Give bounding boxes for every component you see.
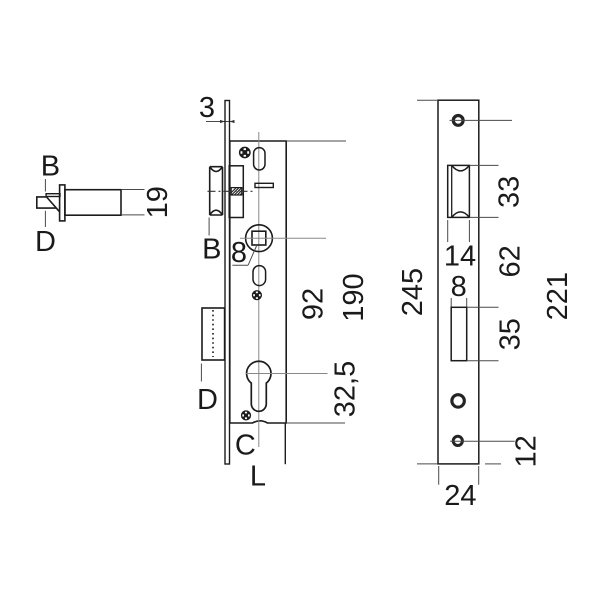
- dimension 24: [444, 480, 476, 512]
- svg-text:B: B: [41, 151, 60, 183]
- extension line under case right edge for L: [284, 423, 286, 464]
- screw B: [252, 291, 261, 300]
- svg-text:33: 33: [494, 176, 526, 208]
- lock case with bottom notch: [230, 141, 286, 423]
- latch head spool (protruding): [210, 167, 223, 215]
- oval slot B: [253, 266, 266, 286]
- cylinder hole in plate: [451, 307, 467, 360]
- dash-dot center line of latch: [208, 190, 256, 192]
- dimension 32,5: [330, 361, 362, 417]
- dimension 33: [494, 176, 526, 208]
- leader line D to latch nose: [44, 211, 46, 227]
- strike plate outline: [438, 100, 479, 464]
- dimension 190: [338, 273, 370, 321]
- case top extension line (190): [286, 140, 346, 142]
- oval slot A: [254, 148, 265, 170]
- hatched latch shaft: [231, 188, 242, 195]
- svg-text:12: 12: [510, 435, 542, 467]
- svg-text:8: 8: [451, 271, 467, 303]
- plate bottom-left extension (245): [417, 463, 437, 465]
- cylinder hole extension lines right (35): [467, 307, 499, 360]
- top screw reference line: [450, 119, 513, 121]
- latch body cylinder: [65, 190, 121, 216]
- leader line B to latch nose: [44, 179, 46, 192]
- label B (left detail): [41, 151, 60, 183]
- label L: [250, 461, 266, 493]
- faceplate side view: [225, 101, 230, 465]
- spindle horizontal reference line: [240, 237, 326, 239]
- dimension 92: [298, 288, 330, 320]
- latch nose (beveled bolt): [37, 197, 60, 212]
- dimension 245: [397, 268, 429, 316]
- bottom-right extension (12): [485, 463, 501, 465]
- svg-text:C: C: [235, 429, 256, 461]
- latch inner body in case: [229, 166, 243, 218]
- bottom screw reference line: [450, 440, 515, 442]
- latch opening in plate: [448, 165, 470, 217]
- dimension 19: [142, 186, 174, 218]
- plate top-left extension (245): [417, 99, 438, 101]
- svg-text:221: 221: [542, 272, 574, 320]
- svg-text:24: 24: [444, 480, 476, 512]
- dimension 14: [444, 241, 476, 273]
- leader line D (deadbolt): [200, 364, 202, 382]
- dimension 35: [495, 318, 527, 350]
- svg-text:D: D: [197, 384, 218, 416]
- leader line B (case latch): [208, 218, 210, 236]
- bottom edge extension line: [286, 422, 345, 424]
- svg-text:35: 35: [495, 318, 527, 350]
- svg-text:245: 245: [397, 268, 429, 316]
- svg-text:190: 190: [338, 273, 370, 321]
- slot in case: [255, 183, 273, 187]
- label B (case latch): [202, 233, 221, 265]
- label 8 with leader: [231, 237, 257, 269]
- extension lines for 19: [121, 190, 145, 215]
- svg-text:B: B: [202, 233, 221, 265]
- svg-text:19: 19: [142, 186, 174, 218]
- svg-text:L: L: [250, 461, 266, 493]
- dimension 221: [542, 272, 574, 320]
- dimension line for 3 with arrows: [206, 120, 235, 123]
- latch flange plate: [60, 185, 65, 221]
- svg-text:14: 14: [444, 241, 476, 273]
- euro cylinder profile: [247, 361, 271, 411]
- cylinder hole extension lines above: [451, 298, 467, 307]
- svg-text:92: 92: [298, 288, 330, 320]
- top screw hole: [453, 116, 463, 126]
- dimension 62: [495, 245, 527, 277]
- svg-text:D: D: [35, 226, 56, 258]
- svg-text:8: 8: [231, 237, 247, 269]
- screw C (bottom): [241, 411, 250, 420]
- middle hole (adjustment): [452, 395, 465, 408]
- latch opening extension lines below (14): [448, 220, 470, 242]
- cylinder center reference line: [246, 373, 328, 375]
- screw A (top): [239, 147, 250, 158]
- dimension 3: [199, 92, 215, 124]
- svg-text:32,5: 32,5: [330, 361, 362, 417]
- extension lines below plate (24): [439, 466, 479, 485]
- label D (deadbolt): [197, 384, 218, 416]
- label D (left detail): [35, 226, 56, 258]
- spindle follower circle: [246, 225, 273, 252]
- bottom screw hole: [453, 436, 462, 445]
- deadbolt (dotted): [202, 308, 225, 360]
- svg-text:62: 62: [495, 245, 527, 277]
- spindle square 8mm: [252, 231, 266, 245]
- latch opening extension lines right (33): [469, 165, 498, 217]
- label C: [235, 429, 256, 461]
- dimension 8 (plate): [451, 271, 467, 303]
- svg-text:3: 3: [199, 92, 215, 124]
- dimension 12: [510, 435, 542, 467]
- latch top strip: [46, 194, 60, 197]
- vertical center line: [258, 132, 260, 447]
